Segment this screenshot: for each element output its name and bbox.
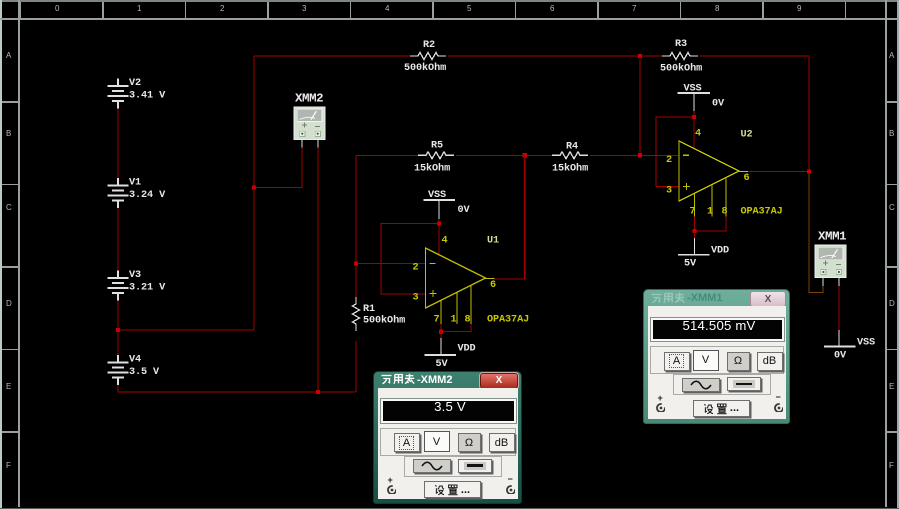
left ruler cell ticks <box>2 101 18 103</box>
op-amp U1 <box>426 248 495 324</box>
label R1 <box>363 304 405 327</box>
node junction rail XMM2 <box>316 390 320 394</box>
multimeter XMM1 icon <box>815 245 846 286</box>
node junction XMM2 plus tap <box>252 185 256 189</box>
label V2 <box>129 78 166 102</box>
wire top bus left <box>254 55 410 57</box>
svg-text:3.5 V: 3.5 V <box>129 367 160 378</box>
plus jack <box>658 393 663 403</box>
wire U1 feedback column <box>499 155 525 279</box>
right ruler letters <box>889 51 894 60</box>
power VDD U2 <box>678 238 729 270</box>
button sine <box>682 378 720 392</box>
svg-text:3.24 V: 3.24 V <box>129 190 166 201</box>
minus jack <box>776 392 781 402</box>
wire U1 vdd stub <box>440 332 442 338</box>
svg-text:R1: R1 <box>363 304 375 315</box>
display 514.505 mV <box>651 318 784 342</box>
svg-text:500kOhm: 500kOhm <box>404 62 446 74</box>
svg-text:V2: V2 <box>129 78 141 89</box>
node junction U2 output <box>807 169 811 173</box>
wire U2 plus loop <box>656 117 694 187</box>
node junction at 640/155 <box>638 153 642 157</box>
titlebar XMM2 <box>374 372 521 388</box>
wire U1 plus loop <box>381 224 439 295</box>
power VDD U1 <box>425 338 476 370</box>
node junction R2R3 tap <box>638 54 642 58</box>
wire U1 supply pins <box>441 324 471 332</box>
label R2 <box>404 40 446 74</box>
minus jack <box>508 474 513 484</box>
mode panel <box>650 346 784 374</box>
svg-text:6: 6 <box>744 173 750 184</box>
button A <box>394 433 420 452</box>
battery V4 <box>108 355 129 385</box>
resistor R4 <box>552 152 588 159</box>
multimeter XMM2 icon <box>294 107 325 148</box>
label V3 <box>129 270 166 294</box>
outer border left <box>0 0 2 509</box>
svg-text:VSS: VSS <box>684 84 702 95</box>
svg-text:VSS: VSS <box>857 338 875 349</box>
svg-text:4: 4 <box>695 129 701 140</box>
dialog body XMM1 <box>648 306 786 419</box>
svg-text:V4: V4 <box>129 355 141 366</box>
svg-text:500kOhm: 500kOhm <box>363 315 405 327</box>
svg-text:1: 1 <box>707 207 713 218</box>
svg-text:4: 4 <box>442 236 448 247</box>
wire to XMM2 plus <box>254 148 302 188</box>
left ruler letters <box>6 51 11 60</box>
top ruler numbers <box>55 4 59 13</box>
svg-text:R5: R5 <box>431 141 443 152</box>
wire U2 supply pins <box>695 217 727 232</box>
power VSS U1 <box>424 190 471 219</box>
wire R5 row left corner <box>356 154 418 156</box>
svg-text:15kOhm: 15kOhm <box>414 163 450 175</box>
svg-text:0V: 0V <box>834 351 847 362</box>
svg-text:R4: R4 <box>566 142 578 153</box>
svg-text:V3: V3 <box>129 270 141 281</box>
node junction U1 vdd <box>439 329 443 333</box>
outer border right <box>897 0 899 509</box>
wire R2 to R3 <box>448 55 662 57</box>
svg-text:5V: 5V <box>436 359 449 370</box>
svg-text:XMM1: XMM1 <box>818 230 846 244</box>
button Ohm <box>727 352 750 371</box>
wire VSS to U1 pin4 <box>438 219 440 255</box>
svg-text:1: 1 <box>451 315 457 326</box>
battery V1 <box>108 178 129 208</box>
node junction U1 vss loop <box>437 221 441 225</box>
svg-text:0V: 0V <box>712 99 725 110</box>
battery V3 <box>108 271 129 301</box>
wire U1 output <box>495 278 525 280</box>
resistor R1 <box>353 297 360 331</box>
svg-text:U2: U2 <box>741 130 753 141</box>
node junction U2 vss loop <box>692 115 696 119</box>
wire V2-V1 <box>117 109 119 179</box>
svg-text:OPA37AJ: OPA37AJ <box>741 207 783 218</box>
dialog body XMM2 <box>378 388 518 499</box>
wire R1 column upper <box>355 155 357 297</box>
svg-text:R3: R3 <box>675 39 687 50</box>
top ruler cell ticks <box>20 2 22 18</box>
wire V4-ground rail <box>118 385 356 392</box>
svg-text:VDD: VDD <box>458 344 476 355</box>
right ruler cell ticks <box>887 101 899 103</box>
wire R4 to U2 pin2 <box>590 154 679 156</box>
close button XMM1 <box>750 291 786 307</box>
svg-text:7: 7 <box>434 315 440 326</box>
label R4 <box>552 142 588 175</box>
node junction R1 pin2 branch <box>354 261 358 265</box>
wave panel <box>673 374 771 395</box>
wire R1 bottom to rail <box>355 341 357 392</box>
power VSS XMM1 <box>824 330 875 362</box>
wire to U1 pin2 <box>356 263 426 265</box>
resistor R3 <box>662 53 698 60</box>
resistor R2 <box>410 53 446 60</box>
svg-text:8: 8 <box>722 207 728 218</box>
display 3.5 V <box>381 399 516 423</box>
button dc <box>458 459 492 473</box>
op-amp U2 <box>679 141 748 217</box>
button V <box>693 350 719 371</box>
wire XMM2 minus to rail <box>317 148 319 393</box>
close button XMM2 <box>480 373 518 389</box>
left ruler right line <box>18 0 20 507</box>
wire V3 node to riser <box>118 329 254 331</box>
button shezhi <box>424 481 481 498</box>
top ruler bottom line <box>0 18 899 20</box>
svg-text:R2: R2 <box>423 40 435 51</box>
wire V3-V4 <box>117 301 119 356</box>
svg-text:15kOhm: 15kOhm <box>552 163 588 175</box>
button Ohm <box>458 433 481 452</box>
battery V2 <box>108 79 129 109</box>
svg-text:V1: V1 <box>129 178 141 189</box>
svg-text:3.21 V: 3.21 V <box>129 283 166 294</box>
power VSS U2 <box>678 84 726 112</box>
outer border bottom <box>0 508 899 509</box>
wire R5 to R4 <box>456 154 552 156</box>
svg-text:0V: 0V <box>458 205 471 216</box>
button dB <box>757 352 783 371</box>
svg-text:2: 2 <box>413 263 419 274</box>
outer border top <box>0 0 899 2</box>
label R3 <box>660 39 702 75</box>
svg-text:3.41 V: 3.41 V <box>129 91 166 102</box>
wire XMM1 plus brown <box>809 173 823 293</box>
svg-text:3: 3 <box>413 293 419 304</box>
svg-text:5V: 5V <box>684 259 697 270</box>
svg-text:OPA37AJ: OPA37AJ <box>487 315 529 326</box>
svg-text:U1: U1 <box>487 236 499 247</box>
node junction feedback column <box>523 153 527 157</box>
mode panel <box>380 428 516 456</box>
button V <box>424 431 450 452</box>
plus jack <box>388 475 393 485</box>
right ruler left line <box>885 0 887 507</box>
wire U2 output <box>748 171 809 173</box>
node junction V3 branch <box>116 328 120 332</box>
button shezhi <box>693 400 750 417</box>
wire riser to top <box>253 56 255 330</box>
svg-text:6: 6 <box>490 280 496 291</box>
node junction U2 vdd <box>692 229 696 233</box>
svg-text:7: 7 <box>690 207 696 218</box>
wire V1-V3 <box>117 208 119 271</box>
label R5 <box>414 141 450 175</box>
button dB <box>489 433 515 452</box>
svg-text:500kOhm: 500kOhm <box>660 63 702 75</box>
button sine <box>413 459 451 473</box>
button dc <box>727 377 761 391</box>
svg-text:8: 8 <box>465 315 471 326</box>
wave panel <box>404 456 502 477</box>
label V1 <box>129 178 166 202</box>
svg-text:VDD: VDD <box>711 246 729 257</box>
wire R3 to output column <box>700 56 809 172</box>
wire VSS to U2 pin4 <box>693 111 695 148</box>
wire tap down to U2 input row <box>639 56 641 155</box>
button A <box>664 352 690 371</box>
resistor R5 <box>418 152 454 159</box>
svg-text:3: 3 <box>666 186 672 197</box>
wire XMM1 minus <box>838 286 840 330</box>
svg-text:XMM2: XMM2 <box>295 92 323 106</box>
svg-text:2: 2 <box>666 155 672 166</box>
titlebar XMM1 <box>644 290 789 306</box>
wire U2 vdd stub <box>694 231 696 238</box>
svg-text:VSS: VSS <box>428 190 446 201</box>
label V4 <box>129 355 160 379</box>
